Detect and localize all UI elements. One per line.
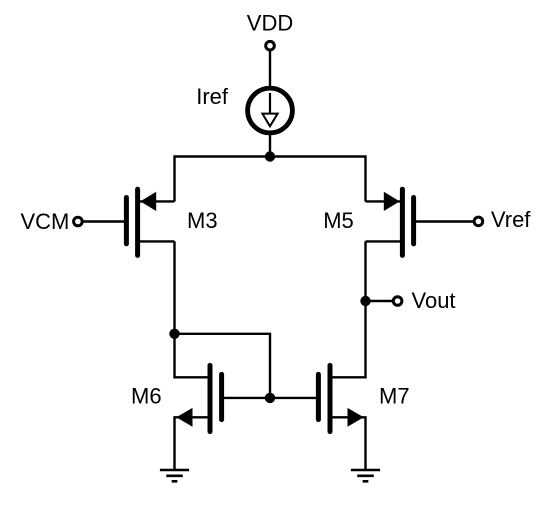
svg-text:Vref: Vref (491, 207, 531, 232)
svg-text:M3: M3 (187, 208, 218, 233)
svg-text:VCM: VCM (21, 209, 70, 234)
svg-text:VDD: VDD (247, 11, 293, 36)
svg-text:M6: M6 (131, 383, 162, 408)
svg-text:M7: M7 (379, 383, 410, 408)
svg-text:Iref: Iref (196, 84, 229, 109)
svg-text:M5: M5 (323, 208, 354, 233)
svg-text:Vout: Vout (412, 288, 456, 313)
